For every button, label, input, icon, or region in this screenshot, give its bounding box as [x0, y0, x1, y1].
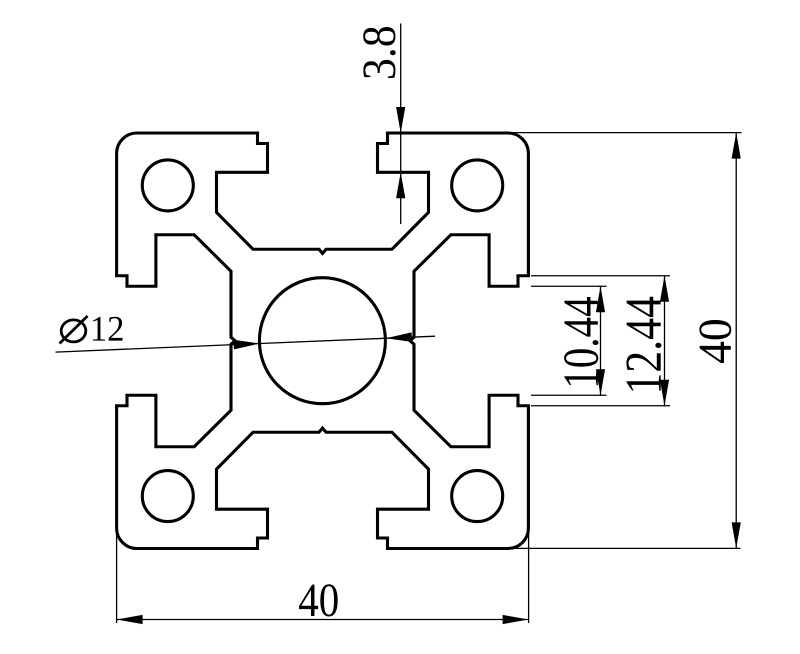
extension line right 40 top — [508, 132, 742, 134]
extension line bottom 40 right — [528, 528, 530, 623]
corner hole bottom-left — [142, 471, 193, 522]
dimension 10.44 line — [600, 286, 602, 395]
dimension right 40 arrow up — [732, 133, 741, 159]
dimension 12.44 line — [664, 276, 666, 406]
extension line 10.44 top — [531, 285, 607, 287]
dimension bottom 40 line — [117, 619, 529, 621]
dimension 10.44 arrow up — [596, 286, 605, 312]
corner hole top-left — [142, 160, 193, 211]
extension line 12.44 bottom — [531, 405, 670, 407]
dimension 12.44 text — [626, 297, 661, 391]
extension line right 40 bottom — [511, 547, 741, 549]
Ø symbol of Ø12 — [61, 320, 86, 342]
extension line 10.44 bottom — [531, 394, 607, 396]
dimension 10.44 arrow down — [596, 369, 605, 395]
dimension bottom 40 text — [299, 584, 338, 616]
dimension bottom 40 arrow right — [503, 615, 529, 624]
dimension right 40 arrow down — [732, 522, 741, 548]
dimension 3.8 arrow up — [396, 172, 405, 198]
dimension 10.44 text — [564, 297, 598, 385]
dimension 12.44 arrow down — [660, 380, 669, 406]
leader Ø12 arrow left (pointing right at circle edge) — [234, 339, 260, 350]
dimension right 40 text — [699, 320, 731, 363]
dimension right 40 line — [735, 133, 737, 549]
profile outline (40x40 T-slot aluminum extrusion cross-section) — [117, 133, 529, 549]
extension line bottom 40 left — [116, 528, 118, 623]
corner hole top-right — [452, 160, 503, 211]
leader line Ø12 — [56, 336, 436, 352]
Ø12 digits text — [93, 317, 123, 341]
extension line 12.44 top — [531, 275, 670, 277]
dimension 3.8 arrow down — [396, 107, 405, 133]
leader Ø12 arrow right (pointing left at circle edge) — [386, 332, 412, 343]
dimension 3.8 text — [363, 27, 395, 78]
corner hole bottom-right — [452, 471, 503, 522]
dimension 12.44 arrow up — [660, 276, 669, 302]
central bore circle Ø12 — [259, 278, 385, 404]
dimension bottom 40 arrow left — [117, 615, 143, 624]
dimension 3.8 line — [400, 24, 402, 225]
